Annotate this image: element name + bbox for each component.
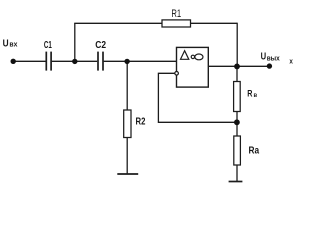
wire R2 to ground — [126, 138, 128, 175]
wire C2 to op-amp input through node B — [104, 60, 177, 62]
label Uvyx — [261, 52, 294, 66]
svg-text:C2: C2 — [95, 40, 106, 51]
svg-text:вых: вых — [267, 53, 281, 62]
capacitor C2 — [98, 52, 103, 71]
wire output node down to Rv — [236, 66, 238, 81]
svg-text:R: R — [247, 89, 252, 100]
wire op-amp output to output terminal — [208, 65, 269, 67]
wire top rail left of R1 — [74, 22, 162, 24]
resistor Rv — [234, 82, 241, 112]
label Rv — [247, 89, 257, 100]
label Uvx — [3, 38, 18, 49]
op-amp infinity mark — [191, 54, 203, 60]
svg-text:в: в — [254, 92, 258, 99]
capacitor C1 — [46, 52, 51, 71]
resistor R2 — [124, 110, 131, 138]
ground under Ra — [229, 181, 243, 183]
op-amp U1 body — [177, 47, 209, 87]
ground under R2 — [117, 173, 138, 175]
wire Ra to ground — [236, 165, 238, 182]
output terminal — [267, 63, 272, 68]
wire node B down to R2 — [126, 61, 128, 110]
svg-text:U: U — [261, 52, 267, 63]
node C junction — [234, 119, 240, 125]
node A junction — [72, 59, 77, 64]
wire input to C1 — [16, 60, 46, 62]
wire Rv to node C — [236, 112, 238, 123]
output node junction — [234, 64, 240, 70]
wire top rail down to output node — [236, 23, 238, 67]
node B junction — [124, 59, 129, 64]
svg-text:R2: R2 — [136, 117, 146, 128]
op-amp inverting input bubble — [175, 72, 179, 76]
svg-text:C1: C1 — [44, 40, 52, 51]
resistor R1 — [162, 20, 191, 27]
wire feedback: bubble to corner, down, right to node C — [158, 73, 236, 122]
svg-text:Ra: Ra — [249, 145, 260, 156]
wire top rail right of R1 — [191, 22, 238, 24]
wire C1 to C2 through node A — [52, 60, 98, 62]
op-amp triangle mark — [181, 51, 189, 60]
input terminal — [11, 59, 16, 64]
svg-text:U: U — [3, 38, 9, 49]
svg-text:R1: R1 — [171, 8, 181, 20]
wire node A up to top rail — [74, 23, 76, 61]
resistor Ra — [234, 136, 241, 165]
svg-text:вх: вх — [9, 42, 17, 49]
wire node C to Ra — [236, 122, 238, 136]
